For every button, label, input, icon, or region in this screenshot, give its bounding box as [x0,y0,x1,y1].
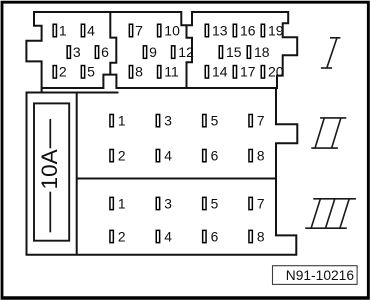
label II-6 [211,148,219,163]
pin 18 [247,46,250,59]
roman numeral I [321,38,341,68]
svg-text:8: 8 [257,229,265,244]
label III-2 [118,229,126,244]
svg-text:17: 17 [240,64,256,80]
pin 17 [233,66,236,79]
svg-text:6: 6 [101,44,109,60]
label II-1 [118,113,126,128]
svg-text:3: 3 [73,44,81,60]
fuse value 10A [37,148,62,189]
pin 10 [158,24,161,37]
svg-text:3: 3 [164,196,172,211]
pin 4 [81,24,84,37]
divider between section II and III [77,178,276,180]
svg-text:5: 5 [211,113,219,128]
svg-text:1: 1 [118,113,126,128]
svg-text:18: 18 [254,44,270,60]
svg-text:7: 7 [257,113,265,128]
pin II-2 [110,149,113,161]
label 4 [87,22,95,38]
pin III-2 [110,230,113,242]
svg-text:20: 20 [268,64,284,80]
svg-text:2: 2 [118,148,126,163]
pin 16 [233,24,236,37]
pin III-7 [249,197,252,209]
pin 20 [261,66,264,79]
svg-text:9: 9 [149,44,157,60]
svg-text:N91-10216: N91-10216 [286,268,355,283]
svg-text:5: 5 [87,64,95,80]
svg-text:1: 1 [118,196,126,211]
label III-3 [164,196,172,211]
svg-text:4: 4 [164,229,172,244]
pin II-1 [110,114,113,126]
fuse holder column right edge [76,93,78,255]
pin 11 [158,66,161,79]
label III-8 [257,229,265,244]
label 16 [240,22,256,38]
svg-text:4: 4 [164,148,172,163]
pin 2 [53,66,56,79]
svg-text:8: 8 [135,64,143,80]
pin 19 [261,24,264,37]
label III-7 [257,196,265,211]
fuse S body [34,103,69,240]
svg-text:4: 4 [87,22,95,38]
pin 8 [129,66,132,79]
pin III-1 [110,197,113,209]
label III-5 [211,196,219,211]
svg-text:10A: 10A [37,148,62,189]
pin 6 [95,46,98,59]
roman numeral II [311,118,346,148]
svg-text:13: 13 [212,22,228,38]
label 3 [73,44,81,60]
connector housing block II outline [27,88,298,255]
svg-text:6: 6 [211,148,219,163]
svg-text:7: 7 [257,196,265,211]
label III-4 [164,229,172,244]
roman numeral III [305,199,356,228]
label 6 [101,44,109,60]
pin 7 [129,24,132,37]
label 1 [59,22,67,38]
pin 12 [172,46,175,59]
pin III-3 [156,197,159,209]
pin III-6 [203,230,206,242]
label 20 [268,64,284,80]
connector housing block I (pins 1-20) outline [26,12,297,93]
pin III-5 [203,197,206,209]
label 9 [149,44,157,60]
svg-text:10: 10 [164,22,180,38]
label 17 [240,64,256,80]
svg-text:3: 3 [164,113,172,128]
divider between housing b and c [187,25,193,88]
svg-text:8: 8 [257,148,265,163]
label 5 [87,64,95,80]
pin II-3 [156,114,159,126]
fuse lead lower [49,192,51,233]
svg-text:11: 11 [164,64,179,80]
pin 9 [143,46,146,59]
label II-8 [257,148,265,163]
label 15 [226,44,242,60]
svg-text:14: 14 [212,64,228,80]
svg-text:12: 12 [178,44,194,60]
label 7 [135,22,143,38]
label 14 [212,64,228,80]
svg-text:1: 1 [59,22,67,38]
label II-3 [164,113,172,128]
svg-text:15: 15 [226,44,242,60]
label II-5 [211,113,219,128]
pin II-5 [203,114,206,126]
pin 5 [81,66,84,79]
svg-text:2: 2 [59,64,67,80]
label 13 [212,22,228,38]
label III-1 [118,196,126,211]
fuse lead upper [49,119,51,148]
label 18 [254,44,270,60]
label II-2 [118,148,126,163]
svg-text:16: 16 [240,22,256,38]
pin II-6 [203,149,206,161]
pin 1 [53,24,56,37]
pin 14 [205,66,208,79]
pin 15 [219,46,222,59]
pin II-4 [156,149,159,161]
label 12 [178,44,194,60]
pin 13 [205,24,208,37]
pin II-8 [249,149,252,161]
svg-text:5: 5 [211,196,219,211]
svg-text:2: 2 [118,229,126,244]
divider between housing a and b [110,12,116,75]
label III-6 [211,229,219,244]
pin III-8 [249,230,252,242]
svg-text:6: 6 [211,229,219,244]
label 19 [268,22,284,38]
label 11 [164,64,179,80]
label 8 [135,64,143,80]
svg-text:7: 7 [135,22,143,38]
label II-7 [257,113,265,128]
svg-text:19: 19 [268,22,284,38]
label II-4 [164,148,172,163]
label 2 [59,64,67,80]
pin II-7 [249,114,252,126]
pin 3 [67,46,70,59]
drawing number box N91-10216 [273,266,358,285]
pin III-4 [156,230,159,242]
label 10 [164,22,180,38]
